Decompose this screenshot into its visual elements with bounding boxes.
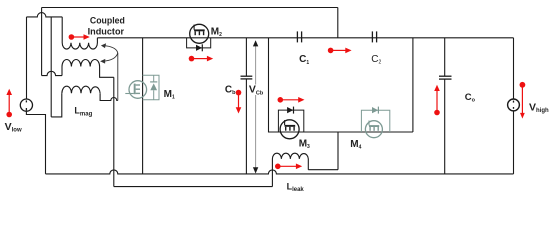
svg-text:Inductor: Inductor bbox=[88, 27, 125, 38]
wire L_leak right horizontal bbox=[308, 169, 338, 171]
inductor winding2 (L_mag middle) bbox=[62, 59, 114, 77]
inductor winding1 (coupled top, cups down) bbox=[62, 17, 97, 49]
wire lower loop bbox=[114, 186, 273, 188]
wire C_o branch lower bbox=[444, 79, 446, 174]
wire riser top bus to mid bus bbox=[337, 8, 339, 38]
wire V_high branch lower bbox=[513, 111, 515, 174]
mosfet M2 bbox=[187, 24, 211, 48]
mosfet M3 bbox=[278, 110, 303, 139]
red current arrow below M2 bbox=[189, 56, 214, 62]
red current arrow above M3 bbox=[278, 97, 305, 103]
wire left riser from top bus down to winding2 left bbox=[41, 8, 43, 76]
wire M3 left riser bbox=[269, 38, 281, 132]
red current arrow at V_high bbox=[520, 82, 526, 119]
body diode of M4 (gray) bbox=[372, 107, 378, 114]
wire mid bus bbox=[97, 37, 513, 39]
wire M1 branch bbox=[142, 38, 144, 174]
wire x51.6 long vertical bbox=[50, 17, 52, 117]
mosfet M4 (gray) bbox=[361, 110, 389, 138]
red current arrow at L_leak bbox=[275, 164, 302, 170]
source V_low bbox=[20, 99, 32, 111]
label V_Cb (white background) bbox=[249, 84, 265, 97]
body diode of M3 bbox=[287, 107, 293, 114]
red current arrow at V_low bbox=[6, 89, 12, 118]
red current arrow between C1 and C2 bbox=[328, 48, 352, 54]
coupling arrowhead to winding1 bbox=[101, 43, 106, 48]
capacitor C1 bbox=[297, 31, 301, 42]
mosfet M1 (gray) bbox=[125, 75, 159, 100]
inductor winding3 (L_mag bottom) bbox=[62, 86, 100, 93]
wire C_b branch lower bbox=[245, 79, 247, 174]
coupling arrows annotation line bbox=[103, 46, 118, 101]
wire U connecting x51.6 to winding3 left bbox=[51, 93, 62, 117]
wire M4 right riser bbox=[412, 38, 414, 132]
wire Vlow bottom bbox=[26, 111, 45, 174]
voltage arrow V_Cb (double headed) bbox=[253, 40, 258, 173]
wire Vlow top vertical bbox=[26, 17, 28, 99]
wire winding2 left horizontal with hop over x51.6 bbox=[42, 71, 62, 75]
red current arrow at C_b bbox=[236, 90, 242, 114]
wire M-row horizontal M3 to M4 riser bbox=[281, 131, 413, 133]
wire V_high branch upper bbox=[513, 38, 515, 99]
red current arrow at winding1 bbox=[69, 34, 90, 40]
wire Vlow plus node horizontal with hop over x41.6 bbox=[27, 13, 63, 17]
wire bottom bus with hops at x113.8 and x272.4 bbox=[46, 170, 514, 174]
svg-text:Coupled: Coupled bbox=[90, 16, 125, 27]
capacitor C_o bbox=[439, 76, 452, 79]
wire winding3 right end with hop over x113.8 bbox=[100, 93, 118, 100]
body diode of M1 (gray) bbox=[150, 82, 157, 90]
wire L_leak riser from M-row bbox=[337, 132, 339, 170]
capacitor C_b bbox=[241, 76, 253, 79]
source V_high bbox=[508, 99, 520, 111]
body diode of M2 bbox=[196, 44, 202, 51]
wire C_b branch upper bbox=[245, 38, 247, 76]
wire C_o branch upper bbox=[444, 38, 446, 76]
red current arrow at C_o bbox=[434, 85, 440, 115]
wire winding2 right vertical down to lower loop bbox=[113, 77, 115, 186]
coupling arrowhead to winding2 bbox=[100, 59, 105, 64]
wire top bus bbox=[42, 7, 338, 9]
inductor L_leak bbox=[272, 153, 308, 186]
capacitor C2 bbox=[372, 31, 376, 42]
